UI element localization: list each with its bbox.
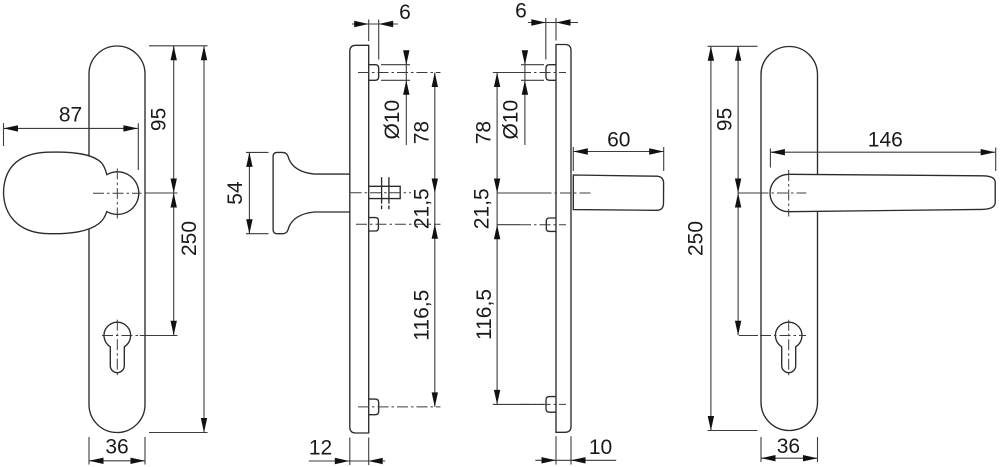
- top screw view 2: [369, 65, 379, 81]
- knob K1 centerlines: [93, 192, 142, 194]
- dimension 36 view 4: [761, 457, 818, 459]
- knob K1 front outline: [4, 152, 139, 234]
- svg-text:95: 95: [714, 108, 737, 131]
- backplate view 2 (knob side profile): [350, 45, 369, 433]
- knob K1 side profile (cap and neck): [273, 152, 350, 233]
- lever L1 front outline: [770, 174, 995, 211]
- svg-text:6: 6: [515, 0, 527, 23]
- lever L1 side profile: [573, 175, 663, 210]
- svg-text:116,5: 116,5: [473, 289, 496, 340]
- svg-text:54: 54: [224, 181, 247, 205]
- svg-text:21,5: 21,5: [471, 188, 494, 229]
- svg-text:78: 78: [410, 121, 433, 144]
- chain dimensions 78 / 21,5 / 116,5 view 2: [434, 73, 436, 407]
- backplate view 1 (knob side, front): [89, 46, 145, 433]
- middle fixing view 3: [546, 218, 556, 231]
- lever boss centerline vertical: [788, 170, 790, 217]
- spindle: [369, 186, 401, 198]
- bottom screw view 2: [369, 399, 379, 415]
- dimension 87 (knob width): [4, 127, 138, 129]
- lever centerline view 3: [541, 192, 594, 194]
- svg-text:21,5: 21,5: [410, 188, 433, 229]
- backplate view 4 (lever side, front): [761, 47, 818, 431]
- dimension 250 view 1: [203, 46, 205, 433]
- keyhole (euro cylinder) view 4: [775, 322, 802, 373]
- dimension 60 (lever grip length side): [573, 151, 663, 153]
- dimension 36 view 1: [89, 460, 145, 462]
- dimension 54 (knob height): [248, 152, 250, 233]
- keyhole centerlines view 1: [116, 320, 118, 377]
- top screw view 3: [546, 65, 556, 81]
- chain dimensions 78 / 21,5 / 116,5 view 3: [496, 73, 498, 405]
- dimension 6 view 3: [528, 22, 578, 24]
- svg-text:95: 95: [148, 108, 171, 131]
- spindle centerline: [351, 192, 411, 194]
- dimension 146 (lever length): [770, 151, 995, 153]
- svg-text:146: 146: [868, 129, 903, 152]
- svg-text:87: 87: [59, 104, 82, 127]
- middle fixing view 2: [369, 218, 379, 231]
- dimension 12 view 2 (plate depth): [309, 460, 385, 462]
- dimension 95 / chain line view 4: [737, 46, 739, 335]
- backplate view 3 (lever side profile): [556, 45, 571, 433]
- keyhole centerlines view 4: [788, 320, 790, 377]
- svg-text:250: 250: [178, 221, 201, 256]
- dimension 250 view 4: [710, 46, 712, 430]
- dimension 95 / chain line view 1: [173, 46, 175, 336]
- svg-text:78: 78: [473, 121, 496, 144]
- dimension Ø10 view 2: [405, 51, 407, 146]
- extension line plate top view 4: [708, 45, 758, 47]
- svg-text:12: 12: [309, 436, 332, 459]
- extension line plate top view 1: [149, 45, 208, 47]
- bottom screw view 3: [546, 397, 556, 413]
- svg-text:36: 36: [105, 436, 128, 459]
- svg-text:Ø10: Ø10: [381, 100, 404, 140]
- svg-text:36: 36: [777, 435, 800, 458]
- dimension Ø10 view 3: [524, 51, 526, 146]
- keyhole (euro cylinder) view 1: [104, 322, 131, 373]
- svg-text:116,5: 116,5: [410, 290, 433, 341]
- dimension 10 view 3 (plate depth): [535, 459, 616, 461]
- svg-text:60: 60: [607, 129, 630, 152]
- dimension 6 view 2 (screw protrusion): [352, 23, 398, 25]
- svg-text:Ø10: Ø10: [500, 100, 523, 140]
- svg-text:10: 10: [589, 436, 612, 459]
- svg-text:6: 6: [399, 1, 411, 24]
- svg-text:250: 250: [685, 221, 708, 256]
